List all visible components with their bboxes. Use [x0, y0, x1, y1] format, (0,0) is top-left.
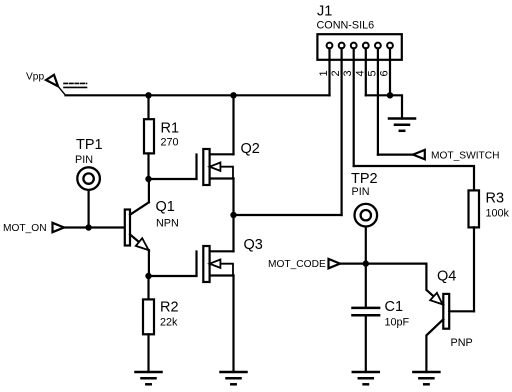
wire J1 pin 3 to R3: [354, 166, 474, 190]
junction node C (Q2 source/Q3 drain/J1 pin 2): [230, 212, 236, 218]
J1 pin 4 pad: [363, 43, 369, 49]
svg-text:TP2: TP2: [351, 171, 378, 187]
svg-text:Vpp: Vpp: [26, 72, 44, 83]
wire J1 pin 6 down: [389, 48, 391, 95]
resistor R3: [469, 190, 480, 227]
connector J1: [317, 34, 401, 60]
wire Vpp rail to R1: [147, 95, 149, 119]
svg-text:Q2: Q2: [241, 141, 260, 157]
svg-text:TP1: TP1: [76, 137, 103, 153]
svg-text:4: 4: [354, 70, 366, 76]
wire J1 pin 2 to Q2/Q3 node: [234, 214, 342, 216]
svg-text:22k: 22k: [160, 317, 178, 329]
wire Q2 source to node C: [232, 179, 234, 216]
ground symbol under C1: [353, 372, 379, 384]
svg-text:6: 6: [379, 70, 391, 76]
wire J1 pin 4 down: [365, 48, 367, 95]
wire node B to Q3 gate: [149, 275, 197, 277]
wire node C to Q3 drain: [232, 215, 234, 251]
junction node A (R1/Q1 collector/Q2 gate): [145, 176, 151, 182]
J1 pin 2 pad: [339, 43, 345, 49]
svg-text:PIN: PIN: [352, 186, 370, 198]
wire J1 pin 2 down: [341, 48, 343, 215]
wire Vpp rail: [66, 94, 330, 96]
transistor Q1: [125, 202, 149, 250]
transistor Q2 (MOSFET): [197, 149, 234, 185]
junction J1 pin 6 / ground wire: [387, 92, 393, 98]
J1 pin 1 pad: [327, 43, 333, 49]
wire MOT_CODE to Q4 emitter: [340, 263, 426, 265]
svg-text:CONN-SIL6: CONN-SIL6: [317, 20, 375, 32]
wire J1 pin 5 down: [377, 48, 379, 154]
wire R2 to ground: [147, 334, 149, 372]
transistor Q4 (PNP): [426, 264, 474, 372]
J1 pin 5 pad: [375, 43, 381, 49]
svg-text:5: 5: [366, 70, 378, 76]
testpoint TP2: [355, 204, 378, 227]
wire Q1 emitter down: [148, 250, 150, 276]
svg-text:Q1: Q1: [156, 199, 175, 215]
svg-text:270: 270: [161, 137, 179, 149]
svg-text:R2: R2: [160, 300, 179, 316]
net flag MOT_SWITCH: [413, 150, 425, 159]
wire J1 pin 1 to Vpp rail: [328, 48, 330, 95]
svg-text:MOT_SWITCH: MOT_SWITCH: [431, 151, 499, 162]
resistor R1: [144, 119, 154, 153]
svg-text:R3: R3: [486, 191, 505, 207]
wire Q1 collector to node A: [148, 179, 150, 202]
wire TP2 to node D: [365, 227, 367, 264]
capacitor C1: [353, 264, 380, 372]
svg-text:PNP: PNP: [451, 337, 473, 349]
ground symbol under Q3: [221, 372, 247, 384]
svg-text:PIN: PIN: [75, 154, 93, 166]
wire node A to Q2 gate: [149, 178, 197, 180]
junction node D (TP2/MOT_CODE/C1): [363, 260, 369, 266]
svg-text:MOT_CODE: MOT_CODE: [268, 259, 326, 270]
svg-text:10pF: 10pF: [385, 317, 410, 329]
svg-text:NPN: NPN: [156, 218, 179, 230]
net flag MOT_ON: [53, 223, 65, 232]
wire R1 to node A: [147, 153, 149, 179]
svg-text:MOT_ON: MOT_ON: [3, 223, 47, 234]
supply symbol Vpp: [46, 75, 87, 96]
svg-text:Q4: Q4: [437, 268, 456, 284]
net flag MOT_CODE: [329, 259, 341, 268]
svg-text:C1: C1: [385, 299, 404, 315]
ground symbol under R2: [136, 372, 162, 384]
svg-text:3: 3: [342, 70, 354, 76]
J1 pin 3 pad: [351, 43, 357, 49]
wire TP1 to MOT_ON net: [87, 191, 89, 228]
junction Vpp rail / R1: [145, 92, 151, 98]
svg-text:R1: R1: [161, 121, 180, 137]
svg-text:J1: J1: [317, 4, 332, 20]
svg-text:2: 2: [330, 70, 342, 76]
svg-text:100k: 100k: [486, 208, 510, 220]
junction TP1 / MOT_ON wire: [85, 224, 91, 230]
transistor Q3 (MOSFET): [197, 246, 234, 282]
wire node B to R2: [147, 276, 149, 299]
testpoint TP1: [77, 167, 100, 190]
wire MOT_ON to Q1 base: [64, 226, 125, 228]
junction Vpp rail / Q2 drain: [230, 92, 236, 98]
wire Q2 drain to Vpp rail: [232, 95, 234, 154]
svg-text:Q3: Q3: [244, 237, 263, 253]
wire J1 pin 5 to MOT_SWITCH: [378, 154, 413, 156]
resistor R2: [143, 299, 154, 334]
svg-text:1: 1: [318, 70, 330, 76]
wire J1 pin 3 down: [353, 48, 355, 166]
ground symbol under J1: [389, 119, 415, 131]
wire Q3 source to ground: [232, 276, 234, 373]
wire J1 pin 4 to ground: [366, 95, 402, 118]
J1 pin 6 pad: [387, 43, 393, 49]
ground symbol under Q4: [413, 372, 439, 384]
junction node B (Q1 emitter/R2/Q3 gate): [145, 273, 151, 279]
wire R3 to Q4 base: [473, 227, 475, 311]
